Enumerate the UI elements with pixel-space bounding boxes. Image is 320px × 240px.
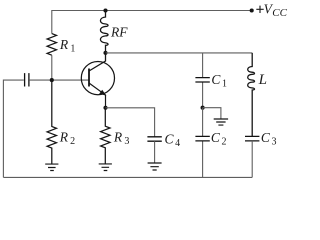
resistor R1 [47, 34, 56, 56]
wire emitter to C4 [106, 108, 155, 137]
emitter arrowhead [100, 91, 105, 96]
capacitor C4 [147, 137, 161, 141]
node dot base/R1/R2 [50, 78, 54, 82]
svg-text:RF: RF [110, 25, 128, 40]
node dot RF bottom / collector [103, 51, 107, 55]
capacitor input coupling [25, 73, 29, 86]
wire top rail Vcc [52, 11, 252, 34]
node dot emitter/R3/C4 [103, 106, 107, 110]
node dot C1/C2/ground [201, 106, 205, 110]
wire R1 bottom lead [51, 55, 53, 80]
capacitor C1 [202, 53, 204, 108]
inductor L [248, 53, 255, 136]
node Vcc terminal dot [250, 8, 254, 12]
label +Vcc [256, 6, 263, 13]
wire input left loop [3, 80, 23, 177]
capacitor C3 [245, 136, 259, 141]
resistor R2 [47, 80, 56, 164]
node dot RF top [103, 8, 107, 12]
wire C3 bottom lead [251, 141, 253, 178]
ground below R2 [45, 164, 58, 170]
collector lead [89, 53, 106, 71]
wire node to ground [203, 108, 221, 119]
wire tank top rail [106, 52, 253, 54]
svg-text:L: L [258, 72, 267, 88]
inductor RF choke [100, 11, 108, 53]
emitter lead [89, 83, 106, 108]
wire base lead [30, 79, 89, 81]
capacitor C2 [202, 108, 204, 178]
ground at tank node [214, 119, 228, 125]
wire bottom return rail [3, 176, 252, 178]
transistor Q1 [81, 53, 114, 108]
ground below R3 [99, 164, 112, 171]
base bar [88, 69, 90, 87]
resistor R3 [101, 108, 110, 164]
body circle [81, 62, 114, 95]
wire C4 ground stub [154, 141, 156, 163]
ground below C4 [148, 163, 162, 170]
